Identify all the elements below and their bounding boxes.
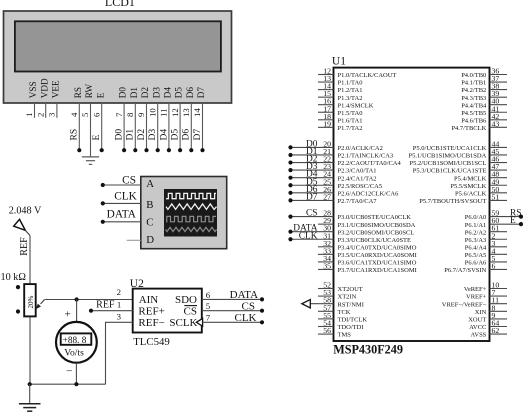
junction node D3: [156, 148, 160, 152]
junction node E (U1 right): [519, 222, 523, 226]
wire LCD pin 1 stub: [34, 103, 36, 118]
wire D0 from LCD pin 7: [123, 103, 125, 150]
wire U1 pin 64 stub: [490, 326, 508, 328]
ground (LCD RW): [82, 157, 99, 165]
junction node D5 (U1): [288, 183, 292, 187]
svg-text:TDI/TCLK: TDI/TCLK: [338, 317, 368, 324]
wire RW from LCD pin 5: [90, 103, 92, 157]
svg-text:P3.1/UCB0SIMO/UCB0SDA: P3.1/UCB0SIMO/UCB0SDA: [338, 222, 416, 229]
svg-text:1: 1: [24, 113, 34, 117]
wire U1 pin 19 stub: [318, 126, 334, 128]
potentiometer terminal dot top: [16, 285, 20, 289]
svg-text:A: A: [146, 178, 154, 190]
svg-text:P3.3/UCB0CLK/UCA0STE: P3.3/UCB0CLK/UCA0STE: [338, 237, 412, 244]
svg-text:CS: CS: [184, 305, 197, 317]
wire U1 pin 37 stub: [490, 81, 508, 83]
svg-text:P6.5/A5: P6.5/A5: [465, 252, 487, 259]
svg-text:P2.1/TAINCLK/CA3: P2.1/TAINCLK/CA3: [338, 153, 394, 160]
wire U1 pin 16 stub: [318, 104, 334, 106]
wire net CS to U1 pin 28: [291, 216, 334, 218]
svg-text:P5.4/MCLK: P5.4/MCLK: [454, 175, 487, 182]
voltmeter body: [56, 322, 97, 363]
voltage reference terminal flag: [14, 219, 26, 230]
wire flag tail: [25, 230, 30, 235]
svg-text:E: E: [95, 92, 105, 98]
svg-text:56: 56: [323, 326, 331, 335]
svg-text:P4.6/TB6: P4.6/TB6: [461, 117, 487, 124]
svg-text:P2.2/CAOUT/TA0/CA4: P2.2/CAOUT/TA0/CA4: [338, 160, 402, 167]
svg-text:XT2IN: XT2IN: [338, 294, 357, 301]
svg-text:CS: CS: [306, 209, 317, 219]
LCD module LCD1: [4, 11, 232, 103]
junction node D3 (U1): [288, 168, 292, 172]
svg-text:VSS: VSS: [28, 81, 38, 98]
svg-text:TDO/TDI: TDO/TDI: [338, 324, 364, 331]
wire U1 pin 42 stub: [490, 119, 508, 121]
wire CS to scope A: [103, 184, 141, 186]
svg-text:REF: REF: [96, 300, 115, 311]
svg-text:P6.7/A7/SVSIN: P6.7/A7/SVSIN: [444, 267, 486, 274]
wire U1 pin 55 stub: [318, 318, 334, 320]
junction node E: [100, 148, 104, 152]
svg-text:P5.0/UCB1STE/UCA1CLK: P5.0/UCB1STE/UCA1CLK: [413, 145, 487, 152]
svg-text:C: C: [146, 216, 153, 228]
svg-text:P2.4/CA1/TA2: P2.4/CA1/TA2: [338, 175, 377, 182]
svg-text:2: 2: [35, 113, 45, 117]
wire U1 pin 56 stub: [318, 333, 334, 335]
wire net D4 to U1 pin 24: [291, 177, 334, 179]
wire U1 pin 39 stub: [490, 96, 508, 98]
junction node D7 (U1): [288, 198, 292, 202]
MCU U1 body: [334, 68, 490, 341]
svg-text:20%: 20%: [27, 296, 35, 309]
wire D3 from LCD pin 10: [157, 103, 159, 150]
svg-text:11: 11: [159, 109, 169, 117]
svg-text:P4.4/TB4: P4.4/TB4: [461, 102, 487, 109]
svg-text:E: E: [510, 216, 516, 226]
junction node D4: [167, 148, 171, 152]
junction node D2 (U1): [288, 160, 292, 164]
wire DATA to scope C: [103, 221, 141, 223]
wire CS to CS: [202, 310, 262, 312]
wire net D2 to U1 pin 22: [291, 162, 334, 164]
svg-text:AVCC: AVCC: [469, 324, 486, 331]
svg-text:LCD1: LCD1: [105, 0, 135, 9]
wire net D6 to U1 pin 26: [291, 192, 334, 194]
wire U1 pin 36 stub: [490, 74, 508, 76]
wire U1 pin 41 stub: [490, 111, 508, 113]
potentiometer terminal dot bottom: [16, 309, 20, 313]
svg-text:RS: RS: [70, 129, 80, 141]
svg-text:P1.0/TACLK/CAOUT: P1.0/TACLK/CAOUT: [338, 72, 397, 79]
waveform channel B (zigzag): [166, 204, 217, 210]
svg-text:9: 9: [136, 112, 146, 117]
wire RS from LCD pin 4: [78, 103, 80, 150]
svg-text:CS: CS: [122, 174, 136, 186]
svg-text:2: 2: [117, 287, 121, 297]
svg-text:P3.7/UCA1RXD/UCA1SOMI: P3.7/UCA1RXD/UCA1SOMI: [338, 267, 417, 274]
junction node D7: [200, 148, 204, 152]
junction node REF: [89, 309, 93, 313]
svg-text:3: 3: [117, 311, 122, 321]
svg-text:43: 43: [492, 119, 500, 128]
svg-text:RS: RS: [73, 87, 83, 98]
svg-text:CS: CS: [242, 300, 255, 312]
svg-text:10: 10: [147, 108, 157, 117]
svg-text:P1.3/TA2: P1.3/TA2: [338, 95, 363, 102]
svg-text:DATA: DATA: [107, 208, 137, 220]
wire net DATA to U1 pin 30: [291, 231, 334, 233]
wire U1 pin 3 stub: [490, 246, 508, 248]
svg-text:SDO: SDO: [175, 294, 197, 306]
svg-text:Vo/ts: Vo/ts: [64, 347, 84, 358]
wire U1 pin 62 stub: [490, 333, 508, 335]
svg-text:+88. 8: +88. 8: [63, 336, 87, 346]
wire U1 pin 32 stub: [318, 246, 334, 248]
svg-text:35: 35: [323, 261, 331, 270]
wire wiper to U2 AIN: [44, 299, 132, 301]
wire LCD pin 2 stub: [45, 103, 47, 118]
wire U1 pin 4 stub: [490, 253, 508, 255]
junction node CLK (U1): [288, 237, 292, 241]
svg-text:VDD: VDD: [39, 78, 49, 98]
svg-text:RW: RW: [84, 84, 94, 99]
svg-text:P6.3/A3: P6.3/A3: [465, 237, 487, 244]
junction node CLK: [101, 201, 105, 205]
svg-text:REF+: REF+: [138, 305, 164, 317]
svg-text:D2: D2: [137, 129, 147, 141]
svg-text:VREF+: VREF+: [466, 294, 487, 301]
svg-text:4: 4: [69, 112, 79, 117]
svg-text:12: 12: [170, 108, 180, 117]
wire U1 pin 38 stub: [490, 89, 508, 91]
wire D7 from LCD pin 14: [202, 103, 204, 150]
svg-text:P6.1/A1: P6.1/A1: [465, 222, 487, 229]
svg-text:D: D: [146, 234, 154, 246]
wire U1 pin 46 stub: [490, 162, 508, 164]
wire U1 pin 45 stub: [490, 154, 508, 156]
svg-text:P1.6/TA1: P1.6/TA1: [338, 117, 363, 124]
svg-text:AIN: AIN: [139, 294, 159, 306]
wire U1 pin 48 stub: [490, 177, 508, 179]
svg-text:P2.3/CA0/TA1: P2.3/CA0/TA1: [338, 168, 377, 175]
junction pot/ground rail: [28, 382, 32, 386]
wire pot bottom to ground rail: [29, 316, 31, 384]
svg-text:TCK: TCK: [338, 309, 351, 316]
svg-text:P1.1/TA0: P1.1/TA0: [338, 80, 363, 87]
wire U1 pin 14 stub: [318, 89, 334, 91]
svg-text:+: +: [65, 308, 71, 320]
svg-text:REF: REF: [19, 237, 30, 256]
wire U1 pin 61 stub: [490, 231, 508, 233]
voltmeter display box: [61, 333, 92, 344]
wire REF to U2 REF+: [91, 310, 133, 312]
svg-text:7: 7: [206, 313, 211, 323]
junction node CS (U1): [288, 215, 292, 219]
wire U1 pin 13 stub: [318, 81, 334, 83]
potentiometer wiper arrow: [41, 300, 45, 304]
svg-text:P1.7/TA2: P1.7/TA2: [338, 125, 363, 132]
junction node D2: [144, 148, 148, 152]
wire net D1 to U1 pin 21: [291, 154, 334, 156]
wire U1 pin 57 stub: [318, 310, 334, 312]
wire U1 pin 60 to net E: [490, 223, 522, 225]
svg-text:P4.3/TB3: P4.3/TB3: [461, 95, 486, 102]
svg-text:XT2OUT: XT2OUT: [338, 286, 363, 293]
svg-text:MSP430F249: MSP430F249: [333, 343, 403, 357]
LCD1 screen: [15, 21, 221, 71]
wire D4 from LCD pin 11: [168, 103, 170, 150]
svg-text:5: 5: [206, 301, 211, 311]
RST input arrow: [302, 300, 310, 308]
wire U1 pin 53 stub: [318, 295, 334, 297]
svg-text:10 kΩ: 10 kΩ: [1, 272, 27, 283]
svg-text:CLK: CLK: [299, 231, 318, 241]
svg-text:P4.0/TB0: P4.0/TB0: [461, 72, 486, 79]
junction node DATA: [101, 220, 105, 224]
svg-text:B: B: [146, 199, 153, 211]
svg-text:CLK: CLK: [114, 190, 137, 202]
wire voltmeter - lead: [75, 363, 77, 384]
svg-text:E: E: [92, 135, 102, 141]
wire REF vertical: [29, 236, 31, 285]
svg-text:8: 8: [125, 112, 135, 117]
oscilloscope screen: [164, 189, 217, 237]
wire U1 pin 40 stub: [490, 104, 508, 106]
svg-text:P3.2/UCB0SOMI/UCB0SCL: P3.2/UCB0SOMI/UCB0SCL: [338, 229, 415, 236]
svg-text:P5.1/UCB1SIMO/UCB1SDA: P5.1/UCB1SIMO/UCB1SDA: [408, 153, 486, 160]
waveform channel C (square): [166, 216, 216, 221]
wire U2 REF- return: [106, 322, 133, 384]
wire D5 from LCD pin 12: [179, 103, 181, 150]
junction AIN/voltmeter: [75, 297, 79, 301]
junction node DATA (U2): [260, 297, 264, 301]
svg-text:P4.2/TB2: P4.2/TB2: [461, 87, 486, 94]
wire U1 pin 34 stub: [318, 261, 334, 263]
wire D1 from LCD pin 8: [134, 103, 136, 150]
svg-text:7: 7: [114, 112, 124, 117]
wire net D5 to U1 pin 25: [291, 184, 334, 186]
wire U1 pin 47 stub: [490, 169, 508, 171]
wire U1 pin 44 stub: [490, 146, 508, 148]
junction node D1: [133, 148, 137, 152]
svg-text:6: 6: [492, 261, 496, 270]
wire U1 pin 43 stub: [490, 126, 508, 128]
wire U1 pin 10 stub: [490, 288, 508, 290]
ADC U2 body: [133, 289, 202, 333]
svg-text:RST/NMI: RST/NMI: [338, 301, 364, 308]
svg-text:TLC549: TLC549: [133, 336, 170, 348]
junction voltmeter/ground rail: [74, 382, 78, 386]
junction node D1 (U1): [288, 153, 292, 157]
svg-text:D7: D7: [196, 87, 206, 99]
svg-text:P2.6/ADC12CLK/CA6: P2.6/ADC12CLK/CA6: [338, 190, 400, 197]
wire U1 pin 12 stub: [318, 74, 334, 76]
wire ground stem: [29, 384, 31, 404]
svg-text:P6.0/A0: P6.0/A0: [465, 214, 487, 221]
wire net D3 to U1 pin 23: [291, 169, 334, 171]
svg-text:P5.6/ACLK: P5.6/ACLK: [455, 190, 487, 197]
svg-text:REF−: REF−: [138, 317, 164, 329]
svg-text:D0: D0: [118, 87, 128, 99]
svg-text:62: 62: [492, 326, 500, 335]
svg-text:D7: D7: [306, 192, 318, 202]
svg-text:D0: D0: [115, 129, 125, 141]
svg-text:SCLK: SCLK: [169, 317, 197, 329]
svg-text:P2.7/TA0/CA7: P2.7/TA0/CA7: [338, 198, 378, 205]
wire net D7 to U1 pin 27: [291, 199, 334, 201]
svg-text:P3.6/UCA1TXD/UCA1SIMO: P3.6/UCA1TXD/UCA1SIMO: [338, 260, 417, 267]
svg-text:D1: D1: [126, 129, 136, 141]
svg-text:P3.0/UCB0STE/UCA0CLK: P3.0/UCB0STE/UCA0CLK: [338, 214, 412, 221]
U2 SCLK clock input triangle: [196, 318, 202, 326]
svg-text:P6.6/A6: P6.6/A6: [465, 260, 487, 267]
junction node RS: [77, 148, 81, 152]
junction node D6: [189, 148, 193, 152]
wire U1 pin 49 stub: [490, 184, 508, 186]
svg-text:D2: D2: [140, 87, 150, 99]
svg-text:P6.4/A4: P6.4/A4: [465, 244, 487, 251]
svg-text:P6.2/A2: P6.2/A2: [465, 229, 487, 236]
svg-text:P3.5/UCA0RXD/UCA0SOMI: P3.5/UCA0RXD/UCA0SOMI: [338, 252, 417, 259]
svg-text:6: 6: [91, 112, 101, 117]
svg-text:U2: U2: [130, 278, 144, 290]
svg-text:P3.4/UCA0TXD/UCA0SIMO: P3.4/UCA0TXD/UCA0SIMO: [338, 244, 417, 251]
potentiometer body: [24, 284, 36, 316]
wire U1 pin 54 stub: [318, 326, 334, 328]
wire E from LCD pin 6: [101, 103, 103, 150]
wire net CLK to U1 pin 31: [291, 238, 334, 240]
svg-text:D5: D5: [174, 87, 184, 99]
svg-text:D4: D4: [159, 129, 169, 141]
junction node DATA (U1): [288, 230, 292, 234]
svg-text:3: 3: [47, 112, 57, 117]
junction node D6 (U1): [288, 191, 292, 195]
svg-text:P1.2/TA1: P1.2/TA1: [338, 87, 363, 94]
junction node D5: [178, 148, 182, 152]
wire U1 pin 11 stub: [490, 303, 508, 305]
svg-text:P5.3/UCB1CLK/UCA1STE: P5.3/UCB1CLK/UCA1STE: [413, 168, 487, 175]
wire RST/NMI with input arrow: [310, 303, 333, 305]
junction node RS (U1 right): [519, 215, 523, 219]
svg-text:51: 51: [492, 192, 500, 201]
wire ground rail: [30, 383, 106, 385]
svg-text:P4.5/TB5: P4.5/TB5: [461, 110, 486, 117]
wire U1 pin 52 stub: [318, 288, 334, 290]
wire U1 pin 18 stub: [318, 119, 334, 121]
wire SCLK to CLK: [203, 321, 262, 323]
wire U1 pin 33 stub: [318, 253, 334, 255]
svg-text:1: 1: [117, 300, 121, 310]
svg-text:D7: D7: [193, 129, 203, 141]
svg-text:D4: D4: [163, 87, 173, 99]
wire U1 pin 8 stub: [490, 310, 508, 312]
wire SDO to DATA: [202, 298, 262, 300]
junction node D4 (U1): [288, 176, 292, 180]
svg-text:D6: D6: [185, 87, 195, 99]
svg-text:VeREF+: VeREF+: [464, 286, 487, 293]
wire U1 pin 2 stub: [490, 238, 508, 240]
svg-text:P4.7/TBCLK: P4.7/TBCLK: [451, 125, 486, 132]
wire CLK to scope B: [103, 202, 141, 204]
svg-text:P5.5/SMCLK: P5.5/SMCLK: [450, 183, 486, 190]
svg-text:P2.5/ROSC/CA5: P2.5/ROSC/CA5: [338, 183, 383, 190]
svg-text:5: 5: [80, 112, 90, 117]
ground (main): [19, 404, 41, 411]
svg-text:27: 27: [323, 192, 331, 201]
waveform channel A (square): [166, 193, 216, 198]
svg-text:D5: D5: [171, 129, 181, 141]
svg-text:P1.5/TA0: P1.5/TA0: [338, 110, 363, 117]
wire U1 pin 50 stub: [490, 192, 508, 194]
junction node D0 (U1): [288, 145, 292, 149]
svg-text:CLK: CLK: [235, 312, 257, 324]
wire U1 pin 7 stub: [490, 295, 508, 297]
svg-text:D3: D3: [148, 129, 158, 141]
wire D6 from LCD pin 13: [190, 103, 192, 150]
wire U1 pin 51 stub: [490, 199, 508, 201]
svg-text:–: –: [66, 366, 73, 377]
svg-text:14: 14: [192, 108, 202, 117]
svg-text:P5.2/UCB1SOMI/UCB1SCL: P5.2/UCB1SOMI/UCB1SCL: [410, 160, 487, 167]
svg-text:D1: D1: [129, 87, 139, 99]
wire U1 pin 59 to net RS: [490, 216, 522, 218]
svg-text:13: 13: [181, 108, 191, 117]
svg-text:TMS: TMS: [338, 332, 352, 339]
waveform channel D (zigzag): [166, 227, 217, 231]
wire U1 pin 35 stub: [318, 268, 334, 270]
svg-text:P1.4/SMCLK: P1.4/SMCLK: [338, 102, 374, 109]
wire U1 pin 9 stub: [490, 318, 508, 320]
svg-text:D6: D6: [182, 129, 192, 141]
svg-text:D3: D3: [151, 87, 161, 99]
svg-text:P2.0/ACLK/CA2: P2.0/ACLK/CA2: [338, 145, 383, 152]
svg-text:VREF−/VeREF−: VREF−/VeREF−: [442, 301, 487, 308]
svg-text:XIN: XIN: [475, 309, 487, 316]
svg-text:2.048 V: 2.048 V: [9, 205, 42, 216]
wire U1 pin 29 stub: [318, 223, 334, 225]
wire U1 pin 17 stub: [318, 111, 334, 113]
junction node CS: [101, 183, 105, 187]
svg-text:AVSS: AVSS: [471, 332, 487, 339]
junction node CLK (U2): [260, 320, 264, 324]
wire net D0 to U1 pin 20: [291, 146, 334, 148]
svg-text:DATA: DATA: [230, 289, 259, 301]
wire U1 pin 15 stub: [318, 96, 334, 98]
svg-text:P5.7/TBOUTH/SVSOUT: P5.7/TBOUTH/SVSOUT: [419, 198, 486, 205]
wire stub scope D: [127, 239, 141, 241]
svg-text:U1: U1: [332, 55, 346, 67]
svg-text:XOUT: XOUT: [468, 317, 486, 324]
svg-text:6: 6: [206, 290, 211, 300]
wire voltmeter + lead: [76, 300, 78, 323]
svg-text:P4.1/TB1: P4.1/TB1: [461, 80, 486, 87]
junction node CS (U2): [260, 309, 264, 313]
junction node D0: [122, 148, 126, 152]
wire D2 from LCD pin 9: [146, 103, 148, 150]
svg-text:VEE: VEE: [51, 80, 61, 98]
wire U1 pin 6 stub: [490, 268, 508, 270]
wire U1 pin 5 stub: [490, 261, 508, 263]
oscilloscope display block: [141, 177, 227, 249]
wire LCD pin 3 stub: [56, 103, 58, 118]
svg-text:19: 19: [323, 119, 331, 128]
